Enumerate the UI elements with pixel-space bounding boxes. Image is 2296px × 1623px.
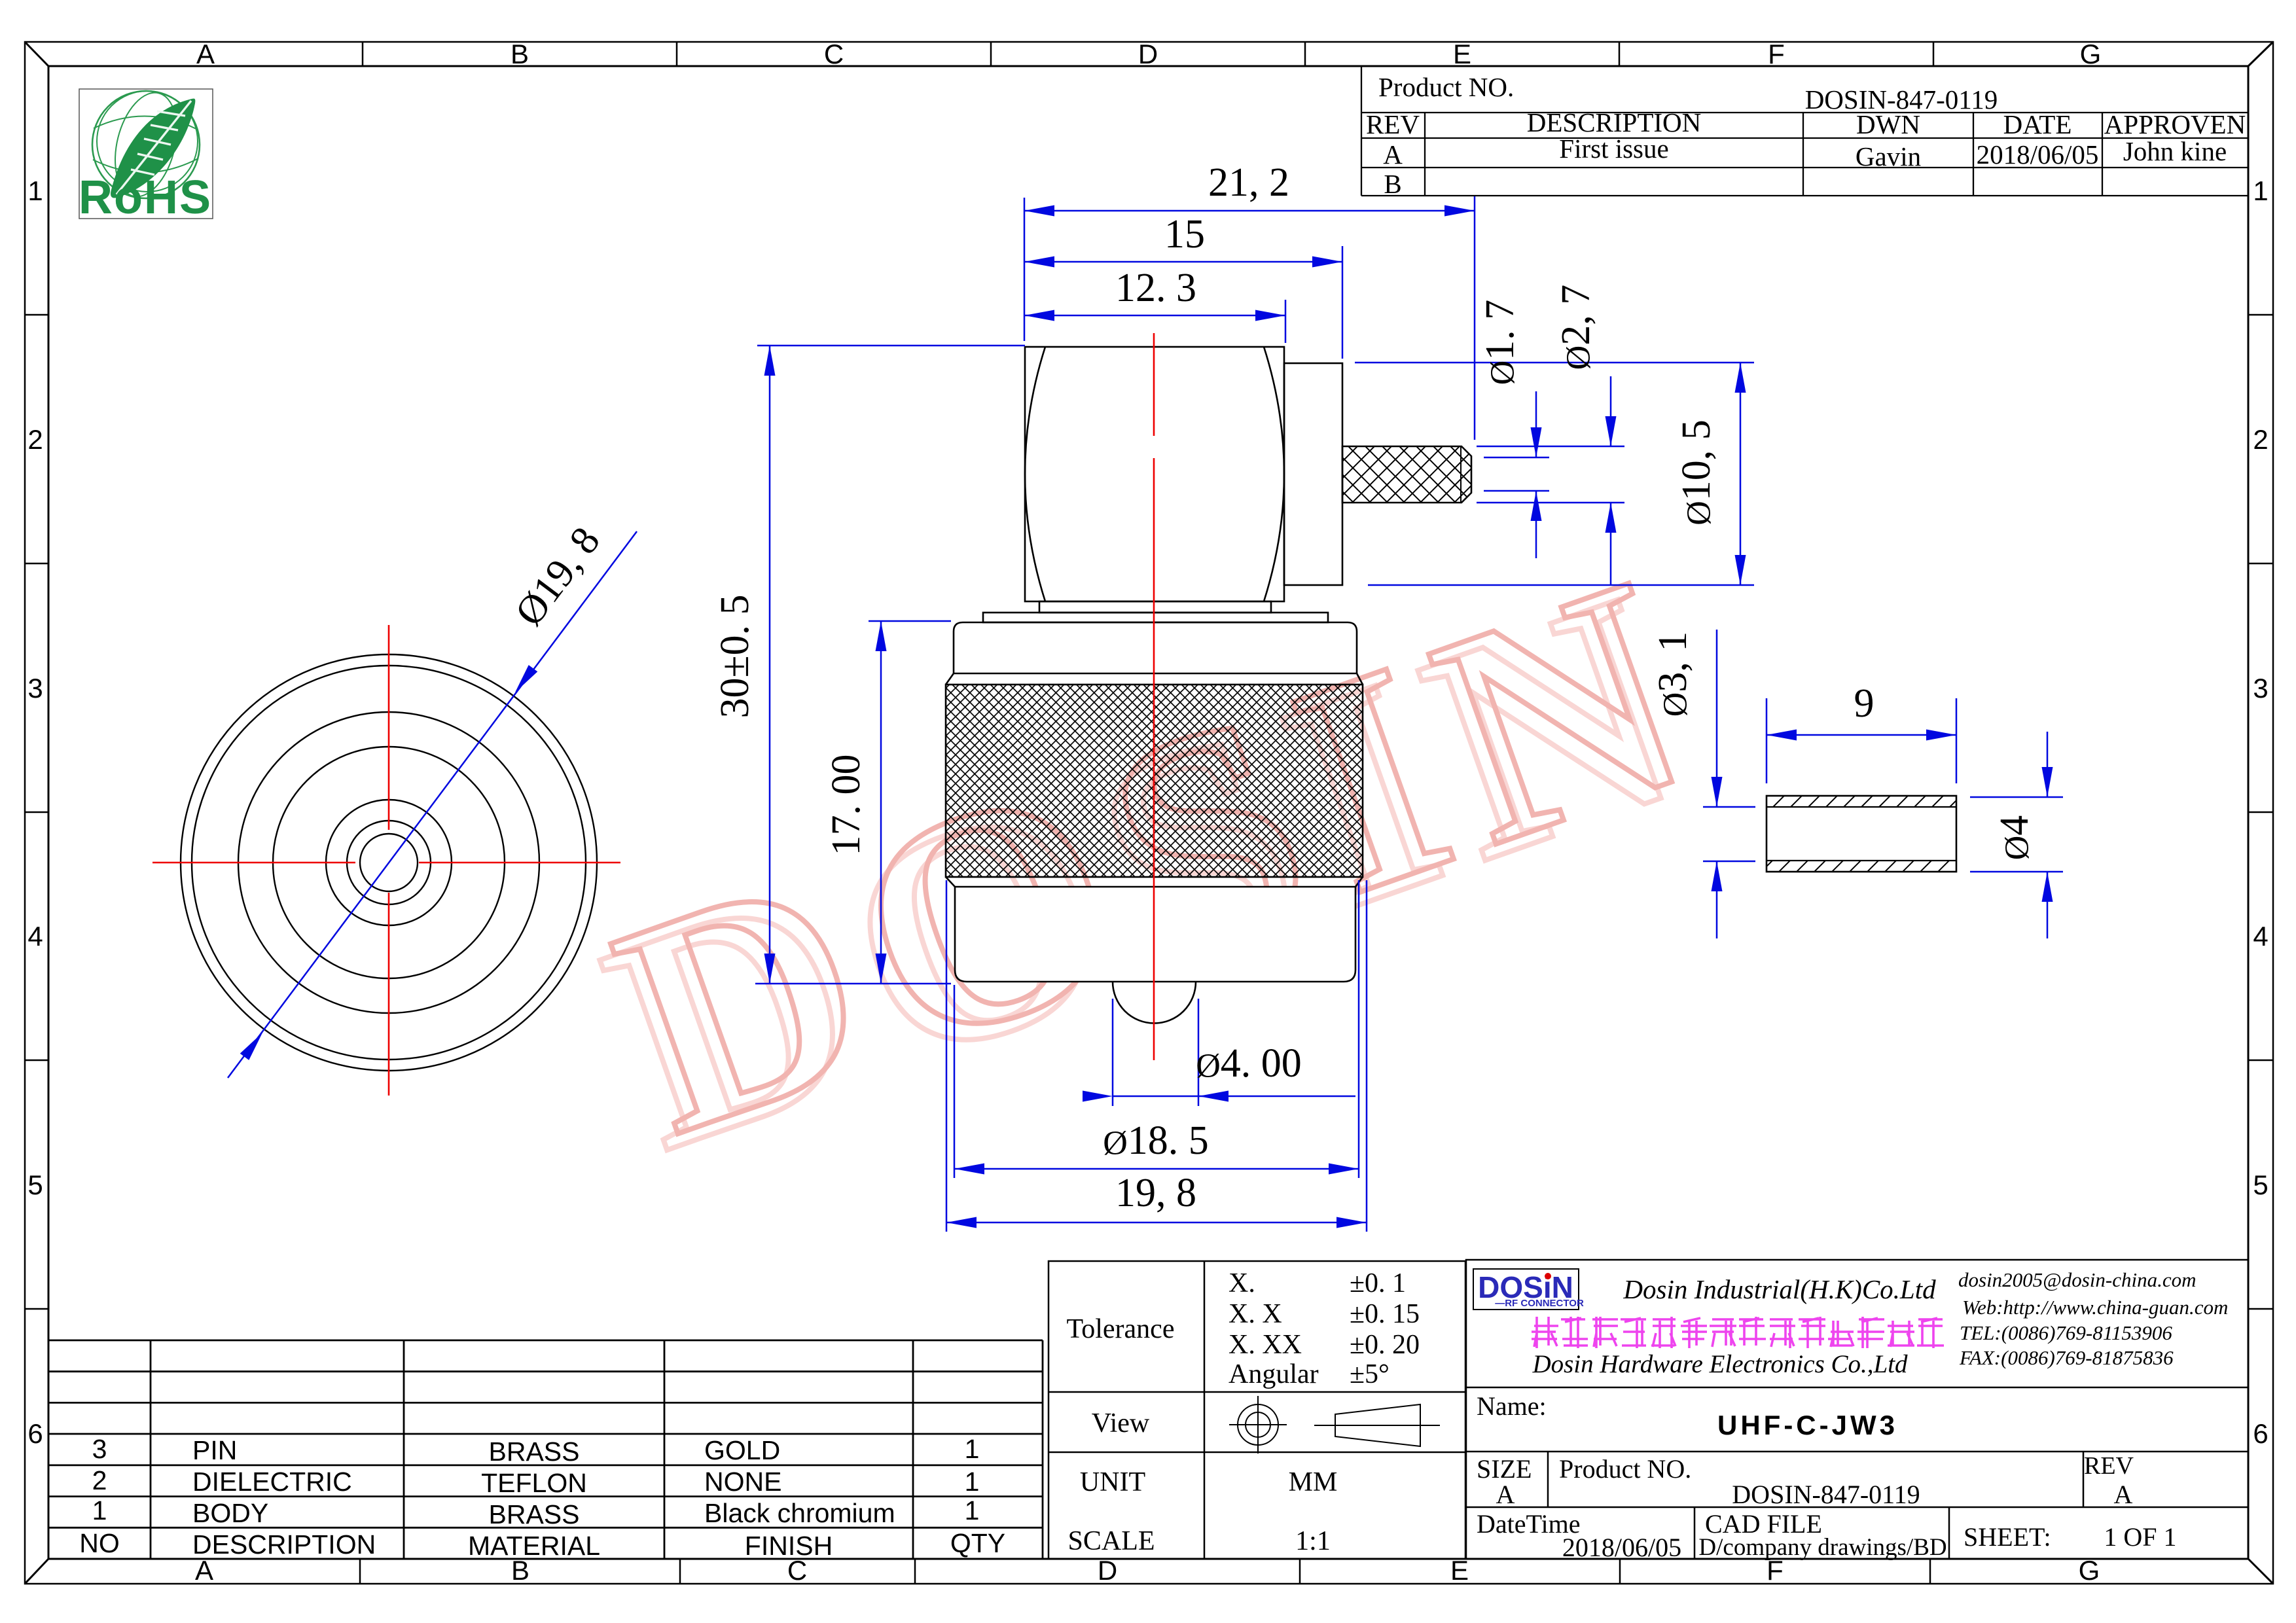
- svg-text:Ø3, 1: Ø3, 1: [1651, 632, 1695, 717]
- svg-text:Angular: Angular: [1229, 1359, 1319, 1389]
- svg-text:BRASS: BRASS: [489, 1436, 580, 1467]
- svg-text:Dosin Hardware Electronics Co: Dosin Hardware Electronics Co.,Ltd: [1532, 1350, 1908, 1378]
- revision table top right: [1361, 67, 2248, 196]
- svg-text:Web:http://www.china-guan.com: Web:http://www.china-guan.com: [1962, 1296, 2228, 1319]
- svg-text:DATE: DATE: [2003, 109, 2072, 139]
- svg-text:UHF-C-JW3: UHF-C-JW3: [1717, 1410, 1898, 1440]
- svg-text:Ø4. 00: Ø4. 00: [1196, 1041, 1302, 1086]
- svg-text:MATERIAL: MATERIAL: [468, 1531, 600, 1561]
- svg-text:Ø4: Ø4: [1992, 815, 2037, 861]
- RoHS logo: [79, 86, 213, 224]
- svg-text:±5°: ±5°: [1350, 1359, 1390, 1389]
- svg-text:Ø18. 5: Ø18. 5: [1103, 1118, 1209, 1163]
- svg-text:Black chromium: Black chromium: [704, 1498, 895, 1528]
- 21,2: [1024, 210, 1475, 212]
- svg-text:1: 1: [2253, 175, 2268, 206]
- svg-text:Tolerance: Tolerance: [1067, 1314, 1175, 1344]
- svg-text:—RF CONNECTOR: —RF CONNECTOR: [1495, 1298, 1584, 1309]
- svg-text:DOSIN-847-0119: DOSIN-847-0119: [1732, 1480, 1920, 1509]
- svg-text:2: 2: [2253, 424, 2268, 455]
- svg-text:NO: NO: [79, 1528, 120, 1558]
- svg-text:Product NO.: Product NO.: [1559, 1454, 1691, 1484]
- svg-text:9: 9: [1854, 681, 1874, 726]
- svg-text:PIN: PIN: [192, 1435, 237, 1465]
- watermark DOSIN: [567, 504, 1753, 1215]
- svg-text:Ø1. 7: Ø1. 7: [1478, 300, 1522, 385]
- svg-text:dosin2005@dosin-china.com: dosin2005@dosin-china.com: [1958, 1268, 2196, 1291]
- svg-text:Name:: Name:: [1477, 1391, 1547, 1421]
- svg-text:QTY: QTY: [950, 1528, 1005, 1558]
- svg-text:19, 8: 19, 8: [1115, 1171, 1196, 1215]
- svg-text:A: A: [1496, 1480, 1515, 1509]
- knurl pin: [1342, 446, 1471, 503]
- svg-text:X.: X.: [1229, 1268, 1255, 1298]
- svg-text:±0. 15: ±0. 15: [1350, 1299, 1420, 1329]
- svg-text:5: 5: [27, 1169, 43, 1200]
- svg-text:1: 1: [27, 175, 43, 206]
- svg-text:15: 15: [1164, 212, 1205, 257]
- pin dims right: dia1.7 dia2.7 dia10.5: [1355, 363, 1754, 585]
- svg-text:2: 2: [27, 424, 43, 455]
- knurl big: [946, 685, 1363, 877]
- 12.3: [1024, 315, 1285, 317]
- svg-text:6: 6: [27, 1418, 43, 1449]
- svg-text:17. 00: 17. 00: [824, 755, 869, 856]
- svg-text:12. 3: 12. 3: [1115, 266, 1196, 310]
- 15: [1024, 261, 1342, 263]
- left vertical dims 30 / 17: [755, 346, 1025, 984]
- svg-text:DIELECTRIC: DIELECTRIC: [192, 1467, 352, 1497]
- svg-text:1: 1: [92, 1495, 107, 1525]
- svg-text:±0. 1: ±0. 1: [1350, 1268, 1406, 1298]
- svg-text:21, 2: 21, 2: [1208, 160, 1289, 205]
- svg-text:D: D: [1138, 39, 1158, 69]
- svg-text:1: 1: [965, 1467, 980, 1497]
- svg-text:DESCRIPTION: DESCRIPTION: [192, 1529, 376, 1560]
- svg-text:3: 3: [92, 1434, 107, 1464]
- svg-text:NONE: NONE: [704, 1467, 781, 1497]
- svg-text:1: 1: [965, 1495, 980, 1525]
- svg-text:A: A: [196, 39, 215, 69]
- svg-text:30±0. 5: 30±0. 5: [713, 594, 757, 718]
- svg-text:A: A: [195, 1555, 213, 1586]
- svg-text:4: 4: [27, 921, 43, 952]
- svg-text:SHEET:: SHEET:: [1964, 1522, 2051, 1552]
- svg-text:6: 6: [2253, 1418, 2268, 1449]
- black outlines: [946, 347, 1471, 1024]
- svg-text:A: A: [1383, 139, 1403, 169]
- svg-text:±0. 20: ±0. 20: [1350, 1330, 1420, 1360]
- DOSIN logo: [1473, 1269, 1584, 1310]
- front view diagonal dia 19,8: [228, 531, 637, 1078]
- svg-text:Ø2, 7: Ø2, 7: [1554, 285, 1598, 370]
- svg-text:C: C: [824, 39, 844, 69]
- dimension texts: [507, 160, 1719, 1215]
- svg-text:1:1: 1:1: [1295, 1526, 1331, 1556]
- svg-text:BODY: BODY: [192, 1498, 268, 1528]
- red centerline side view: [1153, 333, 1155, 1060]
- bottom dims dia4.00 / dia18.5 / 19,8: [946, 880, 1367, 1232]
- svg-text:BRASS: BRASS: [489, 1499, 580, 1529]
- svg-text:FAX:(0086)769-81875836: FAX:(0086)769-81875836: [1959, 1346, 2174, 1369]
- svg-text:A: A: [2114, 1480, 2133, 1509]
- svg-text:X. XX: X. XX: [1229, 1330, 1302, 1360]
- svg-text:2018/06/05: 2018/06/05: [1562, 1533, 1681, 1562]
- view symbols: [1229, 1396, 1440, 1454]
- svg-text:4: 4: [2253, 921, 2268, 952]
- svg-text:B: B: [511, 39, 529, 69]
- svg-text:B: B: [1384, 169, 1401, 199]
- svg-text:First issue: First issue: [1559, 134, 1668, 164]
- svg-text:SCALE: SCALE: [1067, 1526, 1155, 1556]
- svg-text:X. X: X. X: [1229, 1299, 1282, 1329]
- svg-text:GOLD: GOLD: [704, 1435, 780, 1465]
- svg-text:5: 5: [2253, 1169, 2268, 1200]
- svg-text:3: 3: [27, 673, 43, 704]
- svg-text:Gavin: Gavin: [1856, 141, 1921, 171]
- svg-text:G: G: [2080, 39, 2102, 69]
- svg-text:UNIT: UNIT: [1080, 1467, 1145, 1497]
- svg-text:E: E: [1453, 39, 1471, 69]
- svg-text:MM: MM: [1289, 1467, 1338, 1497]
- svg-text:Dosin Industrial(H.K)Co.Ltd: Dosin Industrial(H.K)Co.Ltd: [1623, 1274, 1936, 1304]
- top horizontal dims: [1024, 196, 1475, 440]
- svg-text:RoHS: RoHS: [79, 171, 212, 224]
- svg-text:TEL:(0086)769-81153906: TEL:(0086)769-81153906: [1960, 1321, 2172, 1344]
- svg-text:View: View: [1092, 1408, 1150, 1438]
- svg-text:John kine: John kine: [2123, 136, 2227, 166]
- svg-text:REV: REV: [1366, 109, 1420, 139]
- svg-text:F: F: [1768, 39, 1785, 69]
- svg-text:REV: REV: [2084, 1452, 2134, 1480]
- magenta chinese company name (pseudo-glyph strokes): [1532, 1317, 1944, 1348]
- svg-text:1 OF 1: 1 OF 1: [2104, 1522, 2176, 1552]
- svg-text:APPROVEN: APPROVEN: [2104, 109, 2246, 139]
- svg-text:DWN: DWN: [1856, 109, 1920, 139]
- svg-text:3: 3: [2253, 673, 2268, 704]
- svg-text:D/company drawings/BD: D/company drawings/BD: [1698, 1534, 1946, 1561]
- svg-text:TEFLON: TEFLON: [481, 1468, 587, 1498]
- white fills first: [954, 347, 1357, 982]
- svg-text:FINISH: FINISH: [745, 1531, 833, 1561]
- svg-text:2: 2: [92, 1465, 107, 1495]
- svg-text:Product NO.: Product NO.: [1378, 72, 1514, 102]
- svg-text:1: 1: [965, 1434, 980, 1464]
- svg-text:Ø10, 5: Ø10, 5: [1674, 419, 1719, 526]
- svg-text:2018/06/05: 2018/06/05: [1977, 139, 2099, 169]
